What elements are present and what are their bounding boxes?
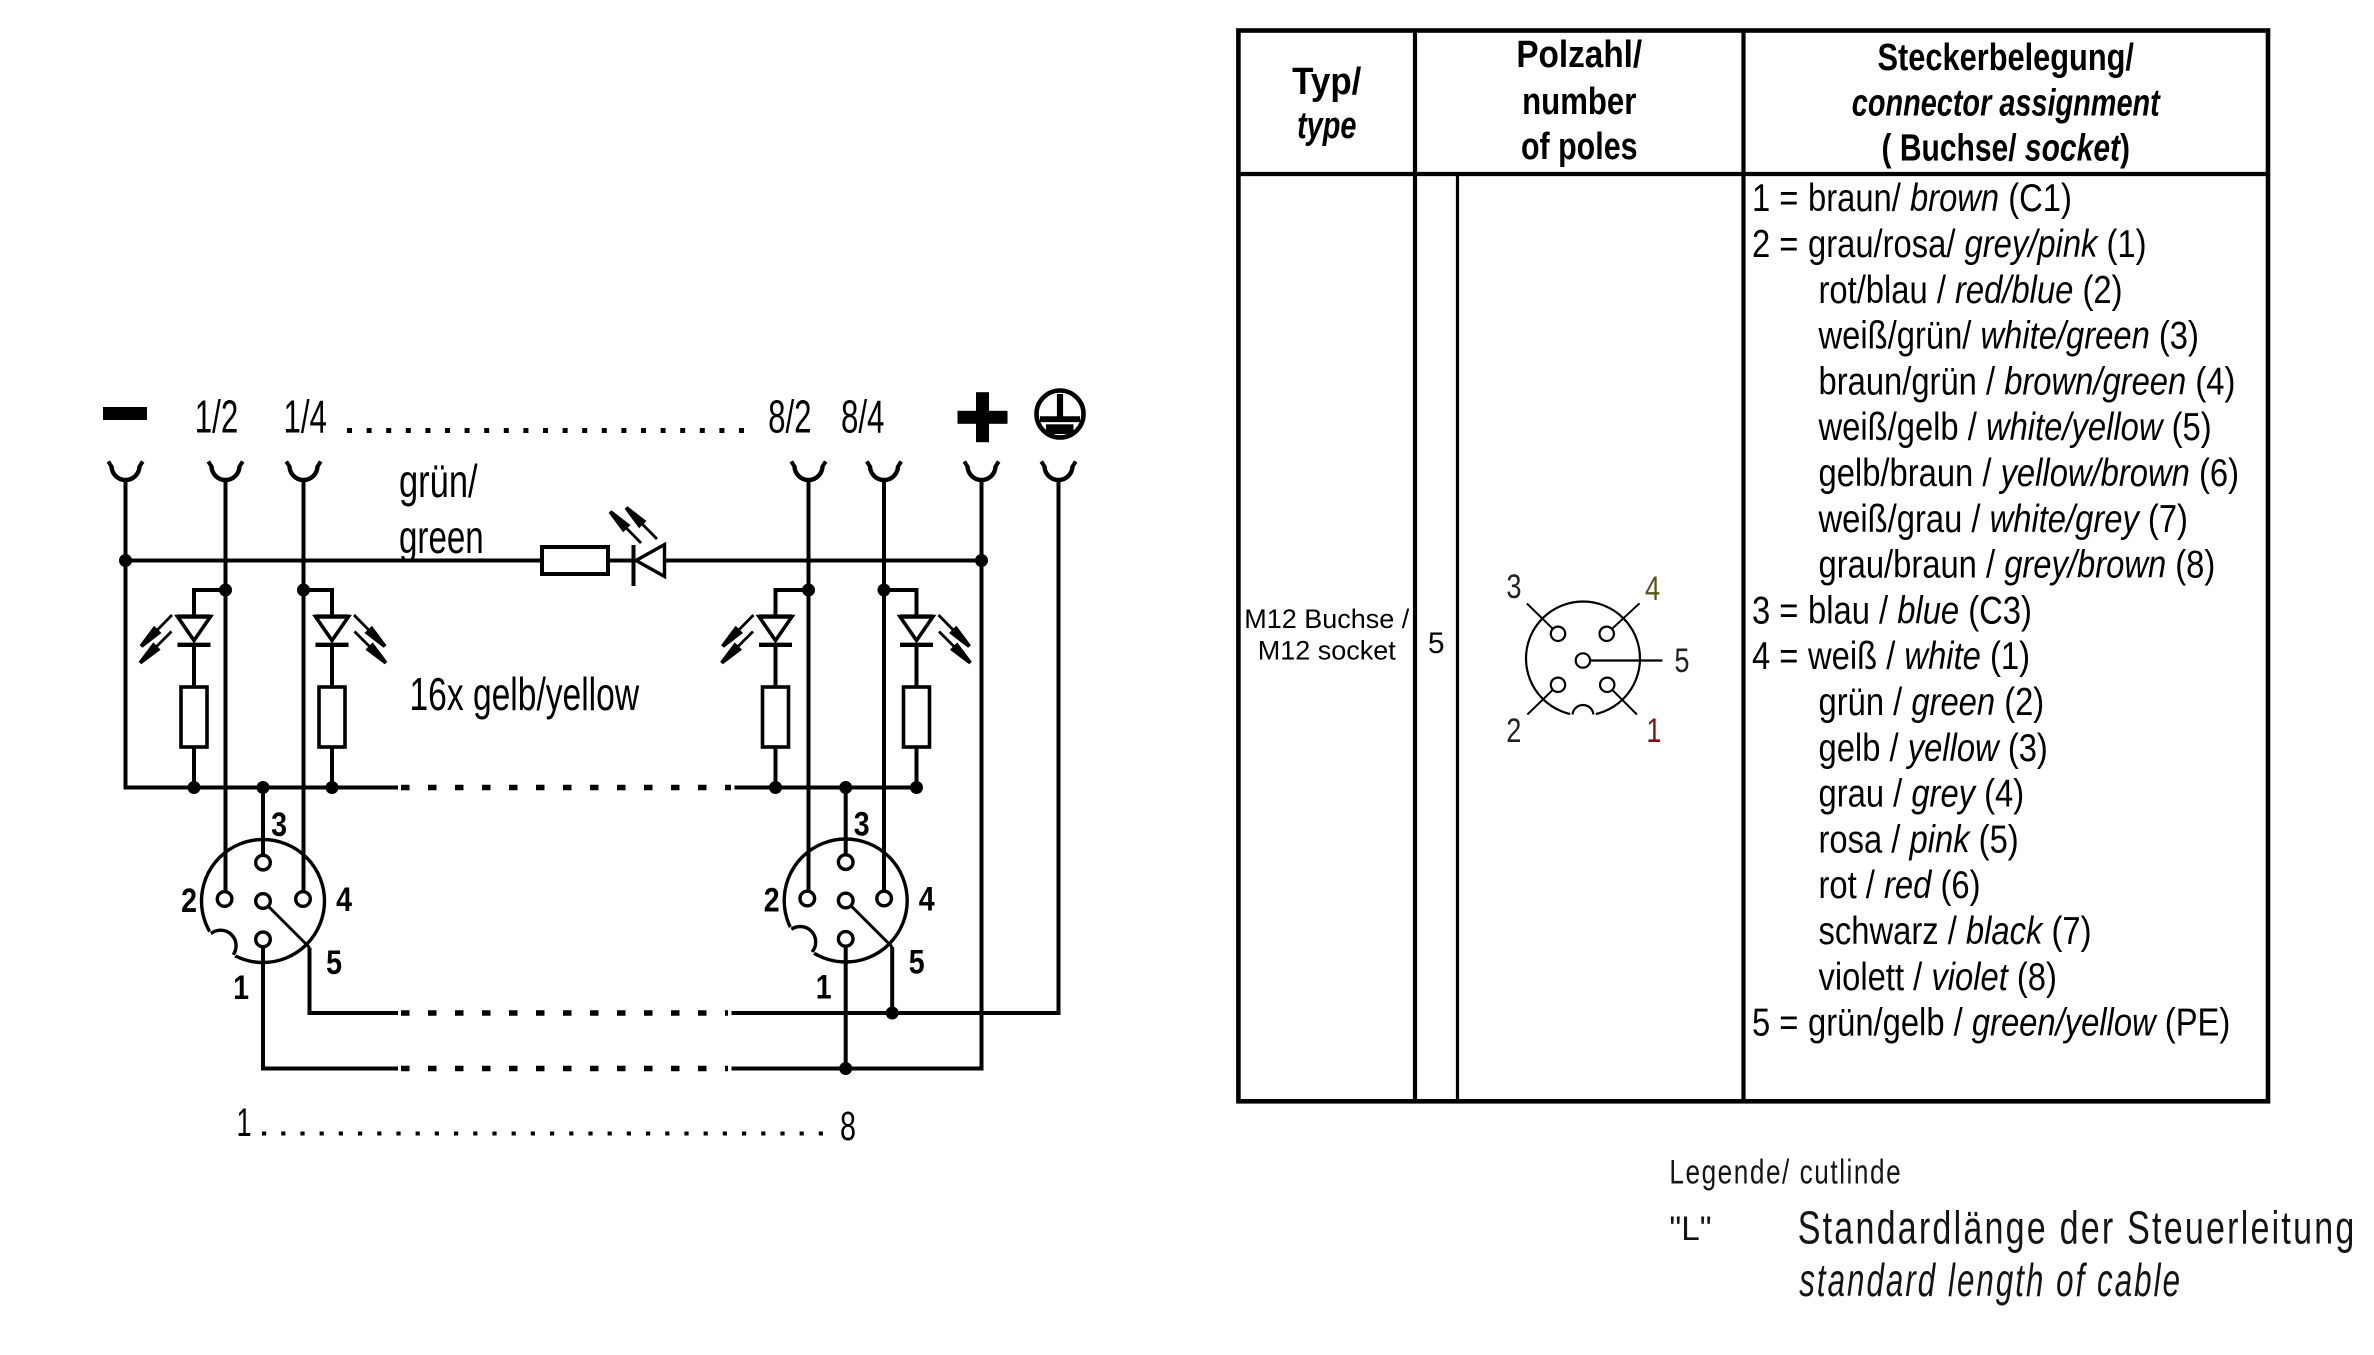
resistor LED2: [319, 687, 345, 747]
wire resistor LED2 to rail: [330, 747, 334, 788]
svg-text:Typ/: Typ/: [1292, 60, 1361, 103]
table divider col2/col3: [1741, 31, 1745, 1102]
wire resistor LED1 to rail: [192, 747, 196, 788]
svg-text:number: number: [1522, 81, 1636, 123]
svg-text:8/4: 8/4: [841, 392, 884, 443]
table socket pin3 line: [1527, 604, 1558, 634]
socket X2 pin 3 hole: [838, 855, 853, 870]
svg-text:rot/blau / red/blue (2): rot/blau / red/blue (2): [1819, 267, 2123, 311]
svg-text:3: 3: [271, 806, 287, 844]
wire entry plus: [968, 466, 996, 480]
svg-text:1/4: 1/4: [283, 392, 326, 443]
wire 1/2 vertical: [224, 480, 228, 892]
svg-text:5: 5: [909, 943, 925, 981]
LED green arrows: [625, 527, 641, 543]
socket X2 pin5 diagonal wire: [851, 906, 892, 947]
svg-text:grün / green (2): grün / green (2): [1819, 679, 2045, 723]
LED LED1: [178, 617, 211, 641]
junction node LED2 tap: [297, 584, 310, 597]
LED D-green in bus: [632, 545, 636, 586]
svg-text:Legende/ cutlinde: Legende/ cutlinde: [1669, 1154, 1902, 1191]
wire entry 8/2: [795, 466, 823, 480]
table socket pin1 line: [1607, 685, 1637, 715]
junction node LED3 tap: [802, 584, 815, 597]
wire LED LED1 to resistor: [192, 646, 196, 688]
wire resistor LED4 to rail: [915, 747, 919, 788]
svg-text:standard length of cable: standard length of cable: [1799, 1255, 2182, 1306]
svg-text:type: type: [1297, 104, 1356, 147]
svg-text:8/2: 8/2: [768, 392, 811, 443]
LED LED4 arrows: [939, 615, 955, 631]
svg-text:1: 1: [816, 968, 832, 1006]
svg-text:M12 socket: M12 socket: [1258, 636, 1397, 666]
socket X2 pin 1 hole: [838, 932, 853, 947]
socket X1 pin 1 hole: [256, 932, 271, 947]
junction pin5 X2 PE rail: [886, 1007, 899, 1020]
svg-text:4: 4: [336, 881, 352, 919]
svg-text:weiß/grün/ white/green (3): weiß/grün/ white/green (3): [1818, 313, 2199, 357]
svg-text:of poles: of poles: [1521, 126, 1638, 168]
svg-text:2 =: 2 =: [1752, 221, 1798, 265]
LED LED2 arrows: [354, 615, 370, 631]
table socket pin4 line: [1607, 603, 1640, 634]
svg-text:2: 2: [1506, 711, 1521, 750]
table socket pin2 line: [1527, 685, 1558, 715]
svg-text:braun/grün / brown/green (4): braun/grün / brown/green (4): [1819, 359, 2236, 403]
pin5 X1 wire down: [310, 948, 399, 1014]
wire 8/2 vertical: [807, 480, 811, 892]
wire resistor LED3 to rail: [774, 747, 778, 788]
svg-text:gelb/braun / yellow/brown (6): gelb/braun / yellow/brown (6): [1819, 450, 2239, 494]
svg-text:4: 4: [919, 880, 935, 918]
junction LED4 rail: [910, 781, 923, 794]
svg-text:grau / grey (4): grau / grey (4): [1819, 771, 2025, 815]
svg-text:Polzahl/: Polzahl/: [1516, 33, 1642, 76]
table socket pin5 line: [1583, 659, 1663, 661]
pin5 X2 wire down: [890, 947, 894, 1013]
svg-text:5: 5: [1674, 641, 1689, 680]
PE rail dashed: [401, 1010, 728, 1015]
svg-text:connector assignment: connector assignment: [1852, 82, 2161, 125]
svg-text:4 =: 4 =: [1752, 633, 1798, 677]
minus supply symbol: [103, 407, 147, 420]
svg-text:5: 5: [1428, 627, 1445, 660]
junction LED1 rail: [188, 781, 201, 794]
stub rail to pin3 right socket: [844, 788, 848, 856]
table divider col1/col2: [1413, 31, 1417, 1102]
junction bus left: [119, 554, 132, 567]
wire entry 1/2: [212, 466, 240, 480]
junction pin1 X2 rail: [839, 1062, 852, 1075]
junction node LED4 tap: [878, 584, 891, 597]
resistor LED1: [181, 687, 207, 747]
LED LED3 arrows: [738, 615, 754, 631]
socket X1 pin5 diagonal wire: [269, 907, 310, 948]
svg-text:M12 Buchse /: M12 Buchse /: [1244, 604, 1410, 634]
svg-text:weiß/gelb / white/yellow (5): weiß/gelb / white/yellow (5): [1818, 404, 2212, 448]
svg-text:3: 3: [1506, 567, 1521, 606]
svg-text:1: 1: [1646, 711, 1661, 750]
pin1 X2 wire down: [844, 947, 848, 1069]
svg-text:1 =: 1 =: [1752, 175, 1798, 219]
svg-text:2: 2: [181, 882, 197, 920]
LED LED2: [316, 617, 349, 641]
LED LED1 arrows: [156, 615, 172, 631]
svg-text:Steckerbelegung/: Steckerbelegung/: [1878, 37, 2135, 79]
svg-text:gelb / yellow (3): gelb / yellow (3): [1819, 725, 2048, 769]
resistor LED4: [904, 687, 930, 747]
socket X2 pin 5 center hole: [838, 893, 853, 908]
minus bus wire: [126, 559, 543, 563]
svg-text:green: green: [399, 513, 484, 563]
M12 socket X1 body: [202, 840, 325, 963]
svg-text:1/2: 1/2: [195, 392, 238, 443]
wire earth vertical and corner to PE rail: [732, 480, 1059, 1013]
junction node LED1 tap: [219, 584, 232, 597]
stub rail to pin3 left socket: [261, 788, 265, 856]
svg-text:8: 8: [840, 1104, 856, 1149]
svg-text:grün/gelb / green/yellow (PE): grün/gelb / green/yellow (PE): [1808, 1000, 2230, 1044]
svg-text:braun/ brown (C1): braun/ brown (C1): [1808, 175, 2072, 219]
wire entry 8/4: [870, 466, 898, 480]
socket X2 pin 2 hole: [800, 891, 815, 906]
wire entry minus: [112, 466, 140, 480]
junction LED3 rail: [769, 781, 782, 794]
svg-text:schwarz / black (7): schwarz / black (7): [1819, 908, 2092, 952]
svg-text:weiß / white (1): weiß / white (1): [1807, 633, 2030, 677]
earth symbol PE: [1037, 391, 1084, 438]
svg-text:violett / violet (8): violett / violet (8): [1819, 954, 2057, 998]
socket X2 pin 4 hole: [877, 891, 892, 906]
wire LED LED2 to resistor: [330, 646, 334, 688]
wire LED LED3 to resistor: [774, 646, 778, 688]
wire LED LED4 to resistor: [915, 646, 919, 688]
table socket body: [1526, 602, 1640, 716]
wire LED3 tap to LED: [776, 590, 809, 617]
svg-text:( Buchse/ socket): ( Buchse/ socket): [1881, 127, 2130, 169]
M12 socket X2 body: [784, 839, 907, 962]
M12 socket X2 keyway notch: [785, 927, 816, 958]
svg-text:3 =: 3 =: [1752, 588, 1798, 632]
svg-text:blau / blue (C3): blau / blue (C3): [1808, 588, 2032, 632]
wire LED4 tap to LED: [884, 590, 917, 617]
svg-text:rot / red (6): rot / red (6): [1819, 862, 1981, 906]
svg-text:rosa / pink (5): rosa / pink (5): [1819, 817, 2019, 861]
svg-text:3: 3: [854, 805, 870, 843]
minus rail dashed middle: [401, 785, 731, 790]
wire 1/4 vertical: [302, 480, 306, 892]
wire 8/4 vertical: [882, 480, 886, 892]
table header separator: [1238, 172, 2268, 176]
plus supply symbol: [958, 411, 1008, 424]
junction bus right plus: [975, 554, 988, 567]
svg-text:grau/braun / grey/brown (8): grau/braun / grey/brown (8): [1819, 542, 2216, 586]
wire plus vertical and corner to pin1 rail: [732, 480, 982, 1069]
wire entry 1/4: [290, 466, 318, 480]
LED LED3: [759, 617, 792, 641]
resistor LED3: [763, 687, 789, 747]
svg-text:4: 4: [1645, 569, 1660, 608]
wire LED1 tap to LED: [194, 590, 226, 617]
table sub divider poles: [1456, 174, 1459, 1101]
socket X1 pin 3 hole: [256, 855, 271, 870]
svg-text:Standardlänge der Steuerleitun: Standardlänge der Steuerleitung: [1798, 1201, 2357, 1253]
svg-text:1: 1: [236, 1101, 251, 1145]
wire minus vertical: [126, 480, 399, 788]
svg-text:16x gelb/yellow: 16x gelb/yellow: [410, 669, 640, 720]
svg-text:grau/rosa/ grey/pink (1): grau/rosa/ grey/pink (1): [1808, 221, 2147, 265]
ellipsis dots top: [347, 428, 757, 433]
junction LED2 rail: [326, 781, 339, 794]
svg-text:5: 5: [326, 944, 342, 982]
svg-text:5 =: 5 =: [1752, 1000, 1798, 1044]
svg-text:2: 2: [764, 881, 780, 919]
ellipsis dots bottom: [262, 1132, 835, 1136]
svg-text:1: 1: [233, 969, 249, 1007]
table outer border: [1238, 31, 2268, 1102]
svg-text:grün/: grün/: [399, 455, 478, 507]
pin1 rail dashed: [401, 1066, 728, 1071]
resistor R-green in bus: [542, 547, 608, 574]
LED LED4: [900, 617, 933, 641]
table socket notch: [1573, 705, 1594, 726]
socket X1 pin 4 hole: [296, 892, 311, 907]
socket X1 pin 5 center hole: [256, 894, 271, 909]
svg-text:"L": "L": [1669, 1211, 1711, 1248]
wire LED2 tap to LED: [304, 590, 333, 617]
pin1 X1 wire down: [263, 947, 398, 1069]
svg-text:weiß/grau / white/grey (7): weiß/grau / white/grey (7): [1818, 496, 2188, 540]
wire entry earth: [1045, 466, 1073, 480]
table socket holes: [1551, 627, 1565, 641]
minus rail right solid: [735, 786, 917, 790]
socket X1 pin 2 hole: [217, 892, 232, 907]
M12 socket X1 keyway notch: [205, 930, 236, 961]
